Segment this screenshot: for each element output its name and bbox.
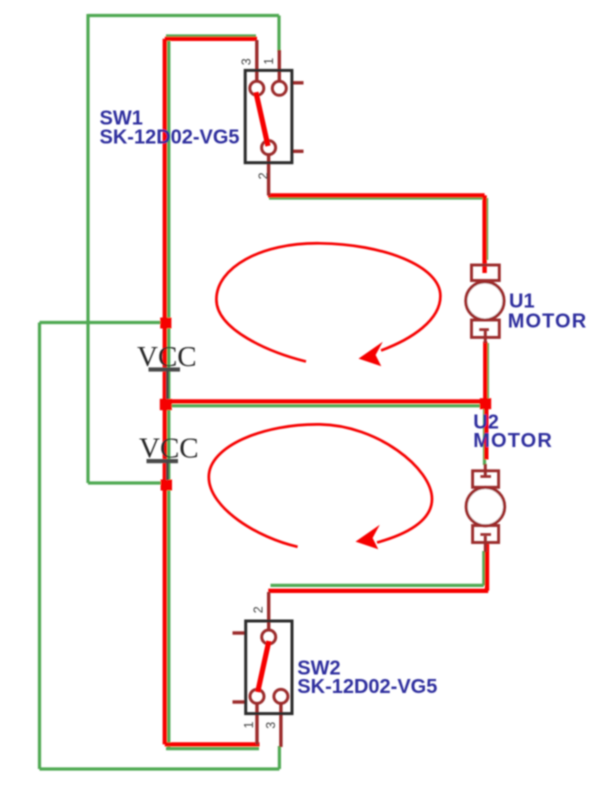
wire green net2 outer left vertical: [38, 323, 41, 770]
svg-text:SK-12D02-VG5: SK-12D02-VG5: [297, 676, 437, 698]
switch SW1 right stub lower: [293, 150, 304, 153]
switch SW2 left stub lower: [233, 700, 246, 703]
svg-text:U1: U1: [509, 290, 535, 312]
VCC symbol 1 bar: [149, 367, 181, 371]
wire green net2 horizontal to node A: [40, 321, 165, 324]
motor U2 top stub: [484, 464, 487, 477]
svg-text:MOTOR: MOTOR: [473, 430, 553, 452]
switch SW1 pin3 top stub: [255, 40, 258, 82]
motor U2 top terminal: [473, 471, 499, 488]
wire green middle horizontal: [169, 404, 485, 407]
svg-text:2: 2: [256, 172, 270, 179]
svg-text:MOTOR: MOTOR: [508, 310, 588, 332]
switch SW2 left stub upper: [233, 631, 246, 634]
switch SW2 pin3 contact: [274, 689, 288, 703]
svg-text:3: 3: [239, 58, 253, 65]
switch SW1 pin2 bottom stub: [267, 155, 270, 196]
switch SW2 pin2 top stub: [267, 592, 270, 631]
wire red main left vertical: [163, 39, 167, 745]
wire green drop to U1 top: [485, 198, 488, 260]
motor U1 body: [466, 282, 504, 320]
wire green U2 to SW2 pin2 horizontal: [271, 584, 484, 587]
switch SW2 pin1 bottom stub: [255, 703, 258, 745]
svg-text:1: 1: [242, 721, 256, 728]
wire red middle horizontal node B to node D: [165, 399, 485, 403]
current loop arrowhead bottom: [356, 525, 380, 549]
wire green under red: main left vertical: [167, 35, 170, 749]
wire green under red: top horizontal: [166, 34, 256, 37]
svg-text:2: 2: [252, 606, 266, 613]
node C junction: [161, 480, 172, 491]
svg-text:VCC: VCC: [137, 341, 197, 373]
motor U2 bottom terminal: [473, 526, 499, 543]
wire green node D to U2 top: [483, 406, 486, 465]
wire green net2 bottom horizontal: [40, 767, 280, 770]
switch SW1 right stub upper: [293, 81, 304, 84]
motor U2 bottom terminal tick: [480, 533, 491, 536]
motor U1 bottom terminal: [472, 320, 500, 337]
wire green net1 lower horizontal to node C: [88, 481, 164, 484]
wire red top horizontal: [165, 37, 257, 41]
motor U1 top terminal: [472, 265, 500, 281]
switch SW2 body: [246, 621, 292, 714]
wire green U1 bottom to node D: [486, 343, 489, 405]
switch SW2 pin2 contact: [262, 630, 276, 644]
wire red U2 to SW2 pin2 horizontal: [268, 589, 488, 593]
node B junction: [160, 399, 172, 410]
current loop arrowhead top: [359, 342, 383, 366]
wire green net1 left vertical: [86, 14, 89, 483]
wire red SW1 pin2 to U1 horizontal: [268, 193, 485, 197]
wire green under red: bottom horizontal: [166, 747, 259, 750]
node A junction: [160, 318, 171, 329]
current loop arrow bottom: [209, 424, 432, 546]
wire green net2 riser to SW2 pin3: [278, 746, 281, 769]
svg-text:SK-12D02-VG5: SK-12D02-VG5: [100, 127, 240, 149]
motor U1 bottom stub: [484, 331, 487, 343]
wire red node D to U2 top: [484, 404, 488, 460]
motor U1 bottom terminal tick: [479, 328, 489, 331]
switch SW2 pin3 bottom stub: [279, 703, 282, 747]
switch SW1 pin1 contact: [272, 81, 286, 95]
wire red drop into U1 top: [482, 195, 486, 273]
wire red U1 bottom to node D: [483, 342, 487, 404]
switch SW1 body: [245, 70, 292, 162]
switch SW1 pin3 contact: [250, 81, 264, 95]
svg-text:3: 3: [264, 722, 278, 729]
node D junction: [480, 398, 491, 409]
switch SW2 pin1 contact: [250, 689, 264, 703]
current loop arrow top: [216, 243, 440, 361]
wire green net1 drop to SW1 pin1: [277, 16, 280, 53]
switch SW1 pin2 contact: [262, 141, 276, 155]
wire green U2 bottom vertical: [482, 551, 485, 585]
svg-text:1: 1: [262, 58, 276, 65]
wire red bottom horizontal: [165, 742, 260, 746]
VCC symbol 2 stem: [166, 462, 169, 480]
switch SW1 pin1 top stub: [278, 50, 281, 82]
motor U2 bottom stub: [484, 536, 487, 552]
wire green net1 top horizontal: [88, 14, 279, 17]
switch SW1 lever: [256, 92, 268, 146]
motor U2 body: [466, 487, 504, 525]
svg-text:VCC: VCC: [139, 433, 199, 465]
switch SW2 lever: [258, 641, 269, 692]
wire green SW1 pin2 to U1 horizontal: [269, 196, 486, 199]
wire red U2 bottom vertical: [485, 543, 489, 591]
motor U2 top terminal tick: [480, 475, 491, 478]
VCC symbol 2 bar: [147, 459, 179, 463]
VCC symbol 1 stem: [166, 371, 169, 399]
